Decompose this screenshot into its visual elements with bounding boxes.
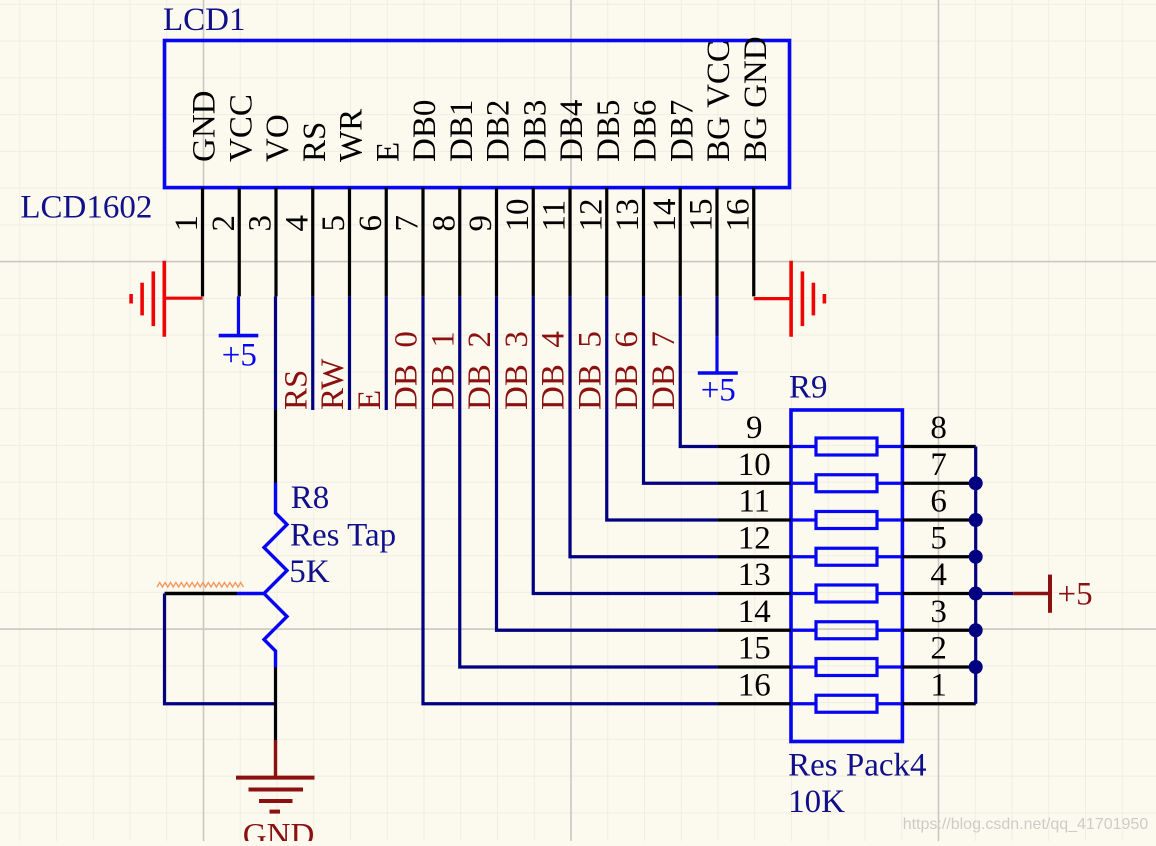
pin 9 (DB2): [463, 100, 517, 297]
R9 pin 12: [717, 520, 791, 557]
svg-text:GND: GND: [243, 817, 314, 841]
pin 8 (DB1): [426, 100, 480, 297]
svg-text:1: 1: [169, 215, 205, 232]
svg-text:LCD1: LCD1: [163, 2, 246, 38]
svg-text:5K: 5K: [289, 554, 330, 590]
svg-text:RS: RS: [278, 370, 314, 410]
R9 pin 16: [717, 667, 791, 704]
junction dot row 12: [969, 550, 983, 564]
pin 4 (RS): [279, 122, 333, 297]
svg-text:13: 13: [738, 557, 771, 593]
wire pin5 (RW): [348, 296, 351, 410]
svg-text:DB4: DB4: [554, 100, 590, 162]
pin 3 (VO): [243, 114, 297, 296]
svg-text:GND: GND: [187, 90, 223, 162]
svg-text:Res Tap: Res Tap: [290, 518, 396, 554]
resistor R9 element 6: [791, 622, 902, 639]
svg-text:9: 9: [746, 410, 763, 446]
wire pin3 (VO): [274, 296, 277, 410]
svg-text:3: 3: [930, 594, 947, 630]
junction dot row 11: [969, 513, 983, 527]
svg-text:E: E: [352, 390, 388, 410]
svg-text:DB 6: DB 6: [609, 331, 645, 410]
R9 pin 6: [902, 484, 975, 521]
svg-text:15: 15: [684, 199, 720, 232]
svg-text:R9: R9: [789, 369, 828, 405]
svg-text:16: 16: [738, 667, 771, 703]
power +5 (pin 15): [698, 336, 738, 408]
wire tap loop: [165, 594, 276, 704]
resistor R9 element 3: [791, 512, 902, 529]
svg-text:6: 6: [930, 484, 947, 520]
junction dot row 13: [969, 587, 983, 601]
resistor R9 element 2: [791, 475, 902, 492]
pin 12 (DB5): [573, 100, 627, 297]
junction dot row 10: [969, 476, 983, 490]
svg-text:+5: +5: [701, 373, 736, 409]
R9 pin 13: [717, 557, 791, 594]
svg-text:DB 2: DB 2: [462, 331, 498, 410]
wire DB7 to R9 pin 9: [680, 296, 717, 446]
junction dot row 15: [969, 660, 983, 674]
pin 16 (BG GND): [720, 36, 774, 296]
wire pin6 (E): [385, 296, 388, 410]
R8 top pin: [274, 410, 277, 483]
R8 tap pin: [165, 592, 238, 595]
svg-text:DB0: DB0: [407, 100, 443, 162]
svg-text:DB 0: DB 0: [389, 331, 425, 410]
wire R9 common bus: [974, 447, 977, 704]
R9 pin 14: [717, 594, 791, 631]
svg-text:DB3: DB3: [517, 100, 553, 162]
wire DB1 to R9 pin 15: [460, 296, 718, 667]
svg-text:DB 7: DB 7: [646, 331, 682, 410]
svg-text:DB6: DB6: [628, 100, 664, 162]
svg-text:https://blog.csdn.net/qq_41701: https://blog.csdn.net/qq_41701950: [903, 816, 1149, 833]
svg-text:8: 8: [930, 410, 947, 446]
svg-text:5: 5: [930, 520, 947, 556]
pin 15 (BG VCC): [684, 40, 738, 296]
svg-text:E: E: [370, 142, 406, 162]
wire pin16 to ground: [754, 297, 790, 300]
svg-text:13: 13: [610, 199, 646, 232]
pin 13 (DB6): [610, 100, 664, 297]
svg-text:DB1: DB1: [444, 100, 480, 162]
junction dot row 14: [969, 623, 983, 637]
svg-text:DB 4: DB 4: [536, 331, 572, 410]
svg-text:DB 3: DB 3: [499, 331, 535, 410]
ground GND (R8): [236, 740, 315, 812]
R9 pin 2: [902, 631, 975, 668]
svg-text:DB7: DB7: [664, 100, 700, 162]
pin 2 (VCC): [206, 94, 260, 296]
svg-text:+5: +5: [222, 338, 257, 374]
svg-text:10K: 10K: [788, 784, 845, 820]
wire DB0 to R9 pin 16: [423, 296, 717, 703]
svg-text:R8: R8: [291, 480, 330, 516]
svg-text:11: 11: [537, 200, 573, 232]
R9 pin 5: [902, 520, 975, 557]
svg-text:12: 12: [573, 199, 609, 232]
svg-text:6: 6: [353, 215, 389, 232]
svg-text:VO: VO: [260, 114, 296, 162]
power +5 (pin 2): [219, 296, 259, 373]
svg-text:10: 10: [738, 447, 771, 483]
power +5 (R9 common): [1013, 575, 1092, 613]
svg-text:DB 1: DB 1: [425, 331, 461, 410]
resistor R9 element 1: [791, 438, 902, 455]
svg-text:2: 2: [206, 215, 242, 232]
ground symbol left (red): [131, 261, 164, 337]
pin 5 (WR): [316, 109, 370, 297]
svg-text:LCD1602: LCD1602: [20, 190, 152, 226]
wire DB2 to R9 pin 14: [497, 296, 718, 630]
R9 pin 10: [717, 447, 791, 484]
svg-text:RS: RS: [297, 122, 333, 162]
ground symbol right (red): [791, 261, 824, 337]
svg-text:DB5: DB5: [591, 100, 627, 162]
svg-text:DB 5: DB 5: [572, 331, 608, 410]
svg-text:12: 12: [738, 520, 771, 556]
svg-text:4: 4: [279, 215, 315, 232]
pin 14 (DB7): [647, 100, 701, 297]
pin 1 (GND): [169, 90, 223, 296]
resistor R8 (Res Tap): [237, 483, 287, 668]
resistor R9 element 8: [791, 695, 902, 712]
R9 pin 4: [902, 557, 975, 594]
wire pin15: [715, 296, 718, 336]
svg-text:+5: +5: [1058, 577, 1093, 613]
R9 pin 11: [717, 484, 791, 521]
pin 11 (DB4): [537, 100, 591, 297]
svg-text:DB2: DB2: [481, 100, 517, 162]
R9 pin 7: [902, 447, 975, 484]
svg-text:RW: RW: [315, 358, 351, 410]
resistor R9 element 4: [791, 548, 902, 565]
resistor pack R9 body: [791, 410, 902, 742]
wire bus to +5: [976, 592, 1014, 595]
resistor R9 element 7: [791, 659, 902, 676]
svg-text:1: 1: [930, 667, 947, 703]
svg-text:7: 7: [930, 447, 947, 483]
wire DB4 to R9 pin 12: [570, 296, 717, 556]
svg-text:16: 16: [720, 199, 756, 232]
svg-text:8: 8: [426, 215, 462, 232]
svg-text:7: 7: [390, 215, 426, 232]
wire DB6 to R9 pin 10: [644, 296, 718, 483]
svg-text:14: 14: [738, 594, 771, 630]
svg-text:10: 10: [500, 199, 536, 232]
svg-text:15: 15: [738, 631, 771, 667]
svg-text:BG GND: BG GND: [738, 36, 774, 162]
svg-text:2: 2: [930, 631, 947, 667]
svg-text:9: 9: [463, 215, 499, 232]
R9 pin 9: [717, 410, 791, 447]
svg-text:5: 5: [316, 215, 352, 232]
wire DB5 to R9 pin 11: [607, 296, 718, 520]
svg-text:3: 3: [243, 215, 279, 232]
R9 pin 15: [717, 631, 791, 668]
svg-text:14: 14: [647, 199, 683, 232]
R9 pin 3: [902, 594, 975, 631]
pin 10 (DB3): [500, 100, 554, 297]
pin 7 (DB0): [390, 100, 444, 297]
R9 pin 1: [902, 667, 975, 704]
IC LCD1 body: [165, 41, 790, 188]
R9 pin 8: [902, 410, 975, 447]
svg-text:WR: WR: [334, 109, 370, 162]
svg-text:4: 4: [930, 557, 947, 593]
pin 6 (E): [353, 142, 407, 297]
R8 bottom pin: [274, 668, 277, 741]
wire pin1 to ground: [166, 297, 203, 300]
wire pin4 (RS): [311, 296, 314, 410]
svg-text:11: 11: [738, 484, 770, 520]
svg-text:Res Pack4: Res Pack4: [788, 747, 926, 783]
error squiggle: [157, 583, 243, 588]
wire DB3 to R9 pin 13: [533, 296, 717, 593]
svg-text:BG VCC: BG VCC: [701, 40, 737, 162]
svg-text:VCC: VCC: [223, 94, 259, 162]
resistor R9 element 5: [791, 585, 902, 602]
